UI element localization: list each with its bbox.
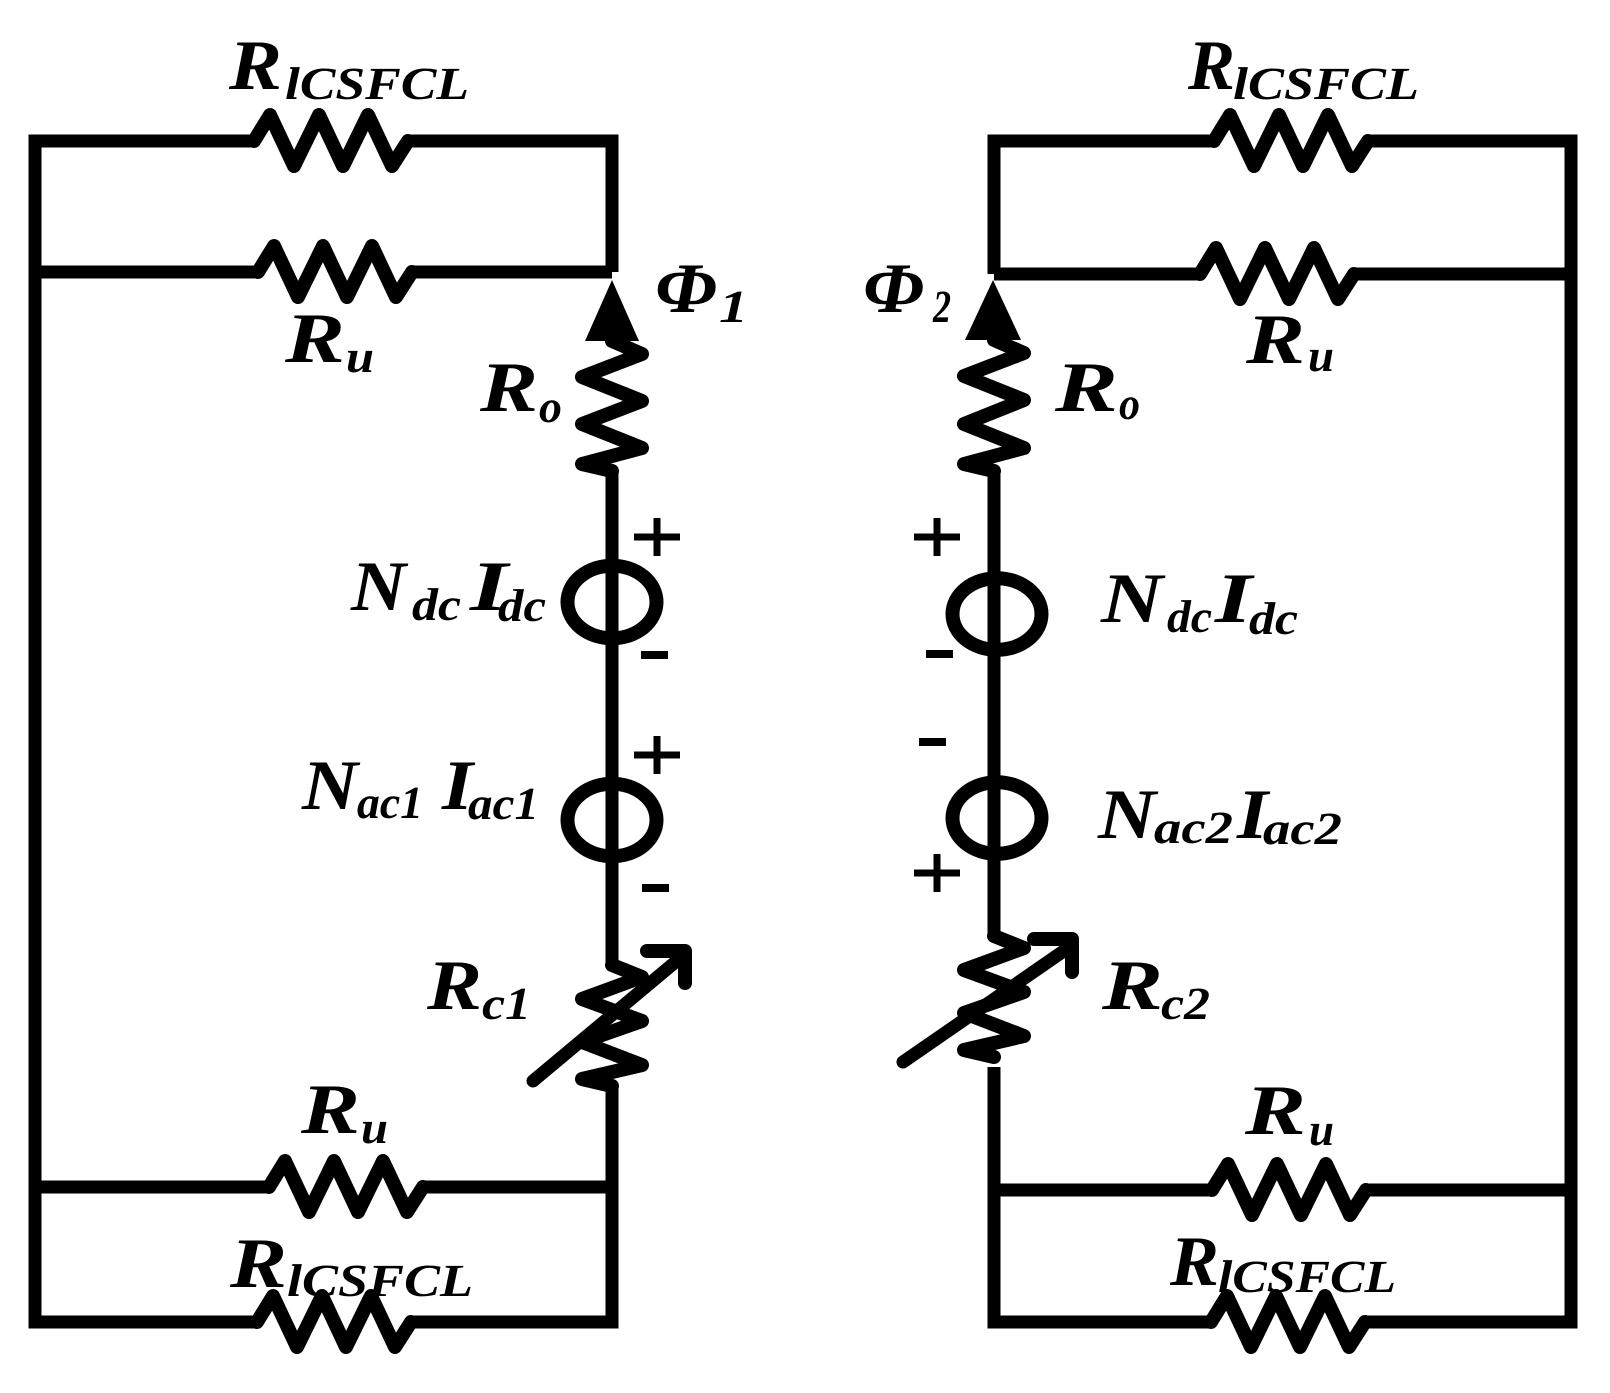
- plus sign above source NdcIdc left: [634, 518, 680, 556]
- arrow through Rc2 (variable), head: [1034, 939, 1072, 972]
- flux arrow Phi2 (up): [965, 280, 1021, 340]
- MMF source NdcIdc left (circle): [568, 566, 657, 639]
- wire: right mid vertical (Rc2 bottom to bottom wire): [994, 1067, 1211, 1322]
- variable resistor Rc2 right (vertical zigzag): [964, 936, 1024, 1057]
- label Ro left: [480, 365, 535, 412]
- wire: right outer loop (right vertical with corners): [1365, 141, 1571, 1322]
- wire: top-right wire left segment + right mid vertical upper: [994, 141, 1214, 274]
- MMF source Nac2Iac2 right (circle): [953, 782, 1042, 854]
- resistor Ro left (vertical zigzag): [582, 341, 642, 471]
- minus sign below source Nac1Iac1 left: [642, 884, 669, 892]
- resistor RlCSFCL top-right zigzag: [1214, 115, 1368, 166]
- label Ru top-left: [285, 316, 342, 363]
- plus sign above source Nac1Iac1 left: [634, 736, 680, 774]
- wire: bottom Ru-right wire right segment: [1366, 1184, 1571, 1197]
- wire: second-right wire left segment: [994, 268, 1200, 281]
- wire: second-left wire right segment: [412, 266, 612, 279]
- label RlCSFCL bottom-right: [1170, 1239, 1216, 1286]
- arrow through Rc1 (variable), shaft: [533, 959, 679, 1081]
- label RlCSFCL bottom-left: [230, 1241, 284, 1288]
- label Ru top-right: [1246, 317, 1302, 364]
- minus sign below source NdcIdc left: [641, 651, 668, 659]
- wire: right mid vertical (Ro bottom to Rc2 top): [988, 471, 1001, 936]
- wire: bottom Ru-left wire right segment: [423, 1181, 612, 1194]
- resistor RlCSFCL top-left zigzag: [254, 115, 408, 166]
- label Rc1: [427, 963, 479, 1010]
- MMF source NdcIdc right (circle): [953, 578, 1042, 650]
- plus sign above source NdcIdc right: [914, 518, 960, 556]
- wire: left outer loop (left vertical with top/bottom corners): [35, 141, 257, 1322]
- label NdcIdc left: [350, 564, 408, 611]
- label Phi1: [658, 266, 716, 313]
- wire: left mid vertical (Ro bottom to Rc1 top): [606, 470, 619, 965]
- label RlCSFCL top-left: [229, 43, 279, 90]
- label Rc2: [1102, 963, 1160, 1010]
- label Ro right: [1055, 365, 1115, 412]
- MMF source Nac1Iac1 left (circle): [568, 784, 657, 857]
- label Ru bottom-right: [1245, 1088, 1303, 1135]
- label Ru bottom-left: [301, 1087, 357, 1134]
- resistor Ru bottom-right zigzag: [1212, 1164, 1366, 1215]
- resistor RlCSFCL bottom-left zigzag: [257, 1296, 411, 1347]
- label Nac2Iac2 right: [1097, 792, 1158, 839]
- label Nac1Iac1 left: [301, 763, 360, 810]
- label NdcIdc right: [1100, 576, 1165, 623]
- wire: left mid vertical (Rc1 bottom to bottom wire) + bottom corner: [411, 1086, 612, 1322]
- resistor Ro right (vertical zigzag): [964, 340, 1024, 471]
- minus sign below source NdcIdc right: [926, 650, 953, 658]
- flux arrow Phi1 (up): [585, 280, 639, 341]
- plus sign below source Nac2Iac2 right: [914, 854, 960, 892]
- wire: top-left wire right segment + mid vertical upper: [408, 141, 612, 272]
- resistor Ru top-left zigzag: [258, 246, 412, 297]
- arrow through Rc2 (variable), shaft: [903, 948, 1068, 1062]
- arrow through Rc1 (variable), head: [647, 951, 685, 983]
- resistor Ru bottom-left zigzag: [269, 1161, 423, 1212]
- label RlCSFCL top-right: [1188, 43, 1232, 90]
- resistor Ru top-right zigzag: [1200, 248, 1354, 299]
- variable resistor Rc1 left (vertical zigzag): [582, 965, 642, 1086]
- wire: second-right wire right segment: [1354, 268, 1571, 281]
- wire: bottom Ru-right wire left segment: [994, 1184, 1212, 1197]
- label Phi2: [866, 266, 923, 313]
- wire: bottom Ru-left wire left segment: [35, 1181, 269, 1194]
- wire: second-left wire left segment: [35, 266, 258, 279]
- resistor RlCSFCL bottom-right zigzag: [1211, 1296, 1365, 1347]
- minus sign above source Nac2Iac2 right: [919, 738, 946, 746]
